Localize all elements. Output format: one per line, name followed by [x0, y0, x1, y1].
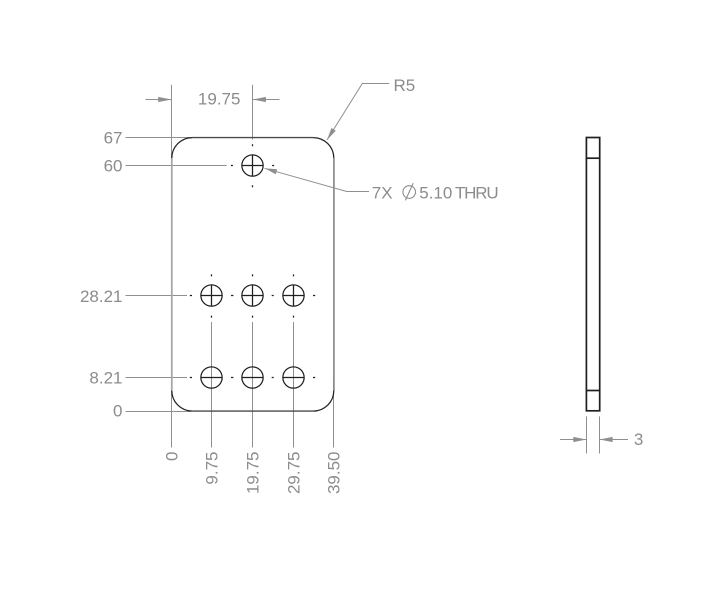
svg-text:67: 67	[104, 129, 123, 148]
hole H5 row2 left	[201, 367, 222, 388]
plate outline front view bottom edge	[192, 410, 313, 412]
side view outline	[586, 138, 599, 411]
arrowhead dim 19.75 right	[253, 97, 266, 102]
hole H4 row1 right	[283, 285, 304, 306]
dimension 3 left arrow tail	[560, 439, 587, 441]
dimension 3 right arrow tail	[600, 439, 629, 441]
svg-text:60: 60	[104, 156, 123, 175]
svg-text:7X5.10THRU: 7X5.10THRU	[372, 183, 498, 202]
svg-text:0: 0	[113, 402, 122, 421]
extension line thickness right	[599, 416, 601, 453]
arrowhead leader R5	[327, 128, 336, 140]
hole H2 row1 left	[201, 285, 222, 306]
dimension 19.75 right arrow tail	[253, 99, 280, 101]
center mark hole H7	[283, 377, 304, 379]
extension line column 29.75	[293, 322, 295, 448]
ordinate line 8.21	[126, 377, 188, 379]
hole H1 top	[242, 155, 263, 176]
center mark hole H5	[201, 377, 222, 379]
svg-text:19.75: 19.75	[244, 452, 263, 495]
side view bottom tangent line	[586, 390, 599, 392]
plate outline front view right edge	[333, 158, 335, 391]
row2 side dashes	[190, 377, 315, 379]
svg-text:39.50: 39.50	[325, 452, 344, 495]
svg-text:3: 3	[634, 430, 643, 449]
diameter symbol of hole callout	[403, 183, 416, 200]
center mark hole H2	[201, 274, 222, 317]
extension line x=39.50	[333, 378, 335, 448]
svg-text:28.21: 28.21	[80, 287, 123, 306]
leader 7X hole callout	[265, 168, 370, 191]
center mark hole H6	[242, 377, 263, 379]
ordinate line 67	[126, 137, 194, 139]
hole H6 row2 middle	[242, 367, 263, 388]
center mark hole H4	[283, 274, 304, 317]
leader R5	[327, 84, 389, 141]
extension line x=19.75 top	[252, 85, 254, 140]
arrowhead dim 19.75 left	[158, 97, 171, 102]
extension line column 19.75	[252, 322, 254, 448]
center mark hole H1	[231, 144, 274, 276]
plate outline front view top edge	[192, 137, 313, 139]
svg-text:R5: R5	[394, 76, 416, 95]
svg-text:9.75: 9.75	[203, 452, 222, 485]
arrowhead dim 3 right	[600, 437, 613, 442]
svg-text:0: 0	[163, 452, 182, 461]
arrowhead dim 3 left	[573, 437, 586, 442]
plate outline corner arcs R5	[172, 138, 334, 412]
row1 side dashes	[190, 295, 315, 297]
ordinate line 60	[126, 165, 227, 167]
ordinate line 0	[126, 411, 191, 413]
hole H7 row2 right	[283, 367, 304, 388]
plate outline front view left edge	[171, 158, 173, 391]
ordinate line 28.21	[126, 295, 188, 297]
side view top tangent line	[586, 157, 599, 159]
extension line x=0 column	[171, 85, 173, 448]
hole H3 row1 middle	[242, 285, 263, 306]
extension line column 9.75	[211, 322, 213, 448]
svg-text:8.21: 8.21	[89, 368, 122, 387]
svg-text:29.75: 29.75	[285, 452, 304, 495]
arrowhead leader 7X	[265, 168, 278, 174]
extension line thickness left	[586, 416, 588, 453]
dimension 19.75 left arrow tail	[146, 99, 172, 101]
center mark hole H3	[242, 285, 263, 318]
svg-text:19.75: 19.75	[198, 90, 241, 109]
